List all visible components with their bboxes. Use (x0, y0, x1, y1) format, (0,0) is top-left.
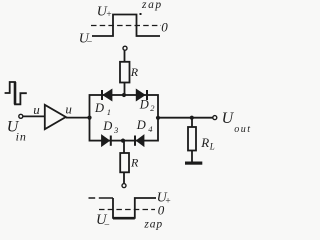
svg-text:L: L (209, 142, 215, 152)
svg-text:D: D (102, 119, 112, 133)
terminal (top gate input) (123, 46, 127, 50)
input pulse icon (5, 82, 27, 104)
svg-text:4: 4 (148, 124, 153, 134)
top waveform pulse trace (92, 15, 160, 37)
svg-text:in: in (16, 129, 27, 143)
svg-text:U: U (222, 110, 235, 127)
wire resistor R bottom to bridge top node (124, 83, 126, 96)
bottom waveform pulse trace (113, 198, 156, 218)
node RL junction (190, 116, 194, 120)
diode D4 cathode bar (134, 136, 136, 146)
svg-text:R: R (130, 155, 139, 169)
label U- (top waveform) (79, 31, 92, 46)
bottom waveform dashed zero line (99, 209, 155, 211)
svg-text:u: u (65, 101, 72, 116)
label U+ (top waveform) (97, 5, 112, 21)
svg-text:R: R (130, 65, 139, 79)
wire bottom resistor to terminal (123, 172, 125, 183)
wire terminal to resistor R top (124, 51, 126, 63)
svg-text:0: 0 (158, 202, 165, 217)
svg-text:R: R (200, 135, 209, 150)
label U- (bottom waveform) (96, 212, 110, 228)
wire amplifier to bridge left node (66, 117, 90, 119)
svg-text:0: 0 (161, 20, 168, 35)
svg-text:D: D (94, 101, 104, 115)
top waveform dashed zero line (91, 25, 161, 27)
svg-text:zap: zap (141, 0, 163, 11)
svg-text:D: D (136, 118, 146, 132)
svg-text:u: u (33, 102, 40, 117)
wire bridge bottom node to resistor R bottom (123, 141, 125, 153)
label Uin (7, 119, 27, 144)
terminal (bottom gate input) (122, 184, 126, 188)
bridge outline (90, 95, 159, 141)
node bridge right mid (156, 116, 160, 120)
node bridge left mid (87, 116, 91, 120)
svg-text:–: – (104, 218, 110, 228)
diode D3 cathode bar (110, 136, 112, 146)
label D1 (94, 101, 111, 117)
wire junction to RL top (191, 118, 193, 127)
bottom waveform baseline left (89, 197, 96, 199)
diode D1 triangle (103, 89, 112, 101)
diode D1 cathode bar (101, 90, 103, 100)
svg-text:3: 3 (113, 125, 118, 135)
diode D2 cathode bar (146, 90, 148, 100)
resistor R (top) (120, 62, 130, 83)
diode D4 triangle (136, 135, 144, 146)
label Uout (222, 110, 252, 135)
ground (185, 162, 202, 165)
label D2 (139, 98, 156, 114)
resistor RL (188, 127, 196, 151)
svg-text:D: D (139, 98, 149, 112)
svg-text:1: 1 (107, 107, 111, 117)
leader dot for zap (140, 13, 142, 15)
label RL (200, 135, 215, 152)
output terminal (213, 116, 217, 120)
wire input terminal to amplifier (23, 115, 45, 117)
svg-text:+: + (106, 10, 112, 20)
svg-text:–: – (86, 36, 92, 46)
svg-text:out: out (234, 124, 251, 135)
wire RL bottom to ground (191, 151, 193, 162)
label U+ (bottom waveform) (157, 191, 172, 207)
bottom waveform pulse bottom thick line (113, 217, 135, 219)
svg-text:2: 2 (150, 103, 155, 113)
amplifier (buffer triangle) (45, 105, 66, 129)
resistor R (bottom) (120, 153, 129, 172)
node bridge top center (122, 93, 126, 97)
svg-text:zap: zap (143, 218, 163, 230)
label D3 (102, 119, 118, 135)
wire bridge right node to output (158, 117, 213, 119)
svg-text:+: + (165, 196, 171, 206)
diode D3 triangle (102, 135, 110, 146)
label D4 (136, 118, 154, 134)
input terminal (19, 114, 23, 118)
diode D2 triangle (136, 89, 145, 101)
node bridge bottom center (121, 139, 125, 143)
